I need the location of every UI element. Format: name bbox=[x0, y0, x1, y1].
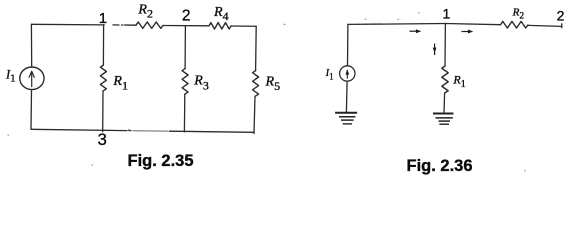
resistor R1 (right) bbox=[442, 66, 448, 93]
current source I1 arrow bbox=[29, 71, 34, 86]
current arrow on wire (right of node 1) bbox=[462, 30, 474, 34]
svg-text:1: 1 bbox=[99, 10, 107, 27]
wire: R3 branch lower bbox=[183, 94, 185, 132]
current source I1 (right) bbox=[340, 66, 355, 81]
wire: source vertical upper bbox=[347, 24, 349, 66]
wire bottom: right part bbox=[170, 131, 255, 132]
ground (under I1) bbox=[335, 113, 357, 124]
wire top: corner to node 1 bbox=[348, 23, 446, 26]
wire: source vertical lower bbox=[345, 81, 348, 112]
current source I1 (right) arrow bbox=[345, 69, 349, 78]
wire top: left corner to node 1 bbox=[31, 23, 104, 26]
wire: R4 to top-right corner bbox=[231, 25, 256, 27]
wire bottom: faded middle bbox=[133, 130, 168, 133]
resistor R2 (right) bbox=[501, 21, 528, 28]
wire: R5 branch lower bbox=[254, 96, 255, 133]
wire: R2 to node 2 end bbox=[528, 25, 562, 26]
wire bottom: scan dot bbox=[129, 130, 131, 132]
ground (under R1) bbox=[433, 114, 454, 125]
resistor R3 bbox=[182, 69, 188, 95]
svg-text:3: 3 bbox=[98, 131, 107, 149]
svg-text:Fig. 2.35: Fig. 2.35 bbox=[127, 152, 193, 170]
wire: R5 branch upper (right vertical) bbox=[255, 26, 258, 70]
wire: R1 branch upper bbox=[102, 25, 104, 65]
wire bottom: node 3 rail (left part) bbox=[31, 129, 127, 130]
svg-text:1: 1 bbox=[443, 5, 451, 21]
wire: R3 branch upper bbox=[184, 26, 186, 69]
speck marks (scan noise) bbox=[8, 12, 526, 171]
wire: node 1 to R2 bbox=[445, 24, 500, 25]
wire: R1 branch lower bbox=[443, 93, 446, 113]
resistor R4 bbox=[209, 23, 231, 29]
resistor R1 bbox=[100, 65, 106, 91]
node 2 end tick bbox=[561, 24, 563, 28]
resistor R5 bbox=[253, 71, 259, 97]
current arrow down (into R1) bbox=[433, 44, 437, 56]
wire: node 1 to R2 (broken scan dashes) bbox=[113, 24, 119, 26]
svg-text:Fig. 2.36: Fig. 2.36 bbox=[406, 157, 472, 175]
current source I1 bbox=[20, 67, 44, 90]
svg-text:2: 2 bbox=[557, 7, 565, 23]
svg-text:2: 2 bbox=[182, 7, 191, 24]
resistor R2 bbox=[136, 22, 163, 28]
current arrow on wire (left of node 1) bbox=[410, 29, 422, 33]
wire: left vertical above source bbox=[30, 24, 32, 67]
wire: left vertical below source bbox=[30, 90, 33, 130]
wire: R1 branch lower bbox=[102, 91, 104, 132]
wire node2: between R2 and R4 bbox=[163, 25, 209, 27]
wire: R1 branch upper bbox=[444, 24, 446, 67]
